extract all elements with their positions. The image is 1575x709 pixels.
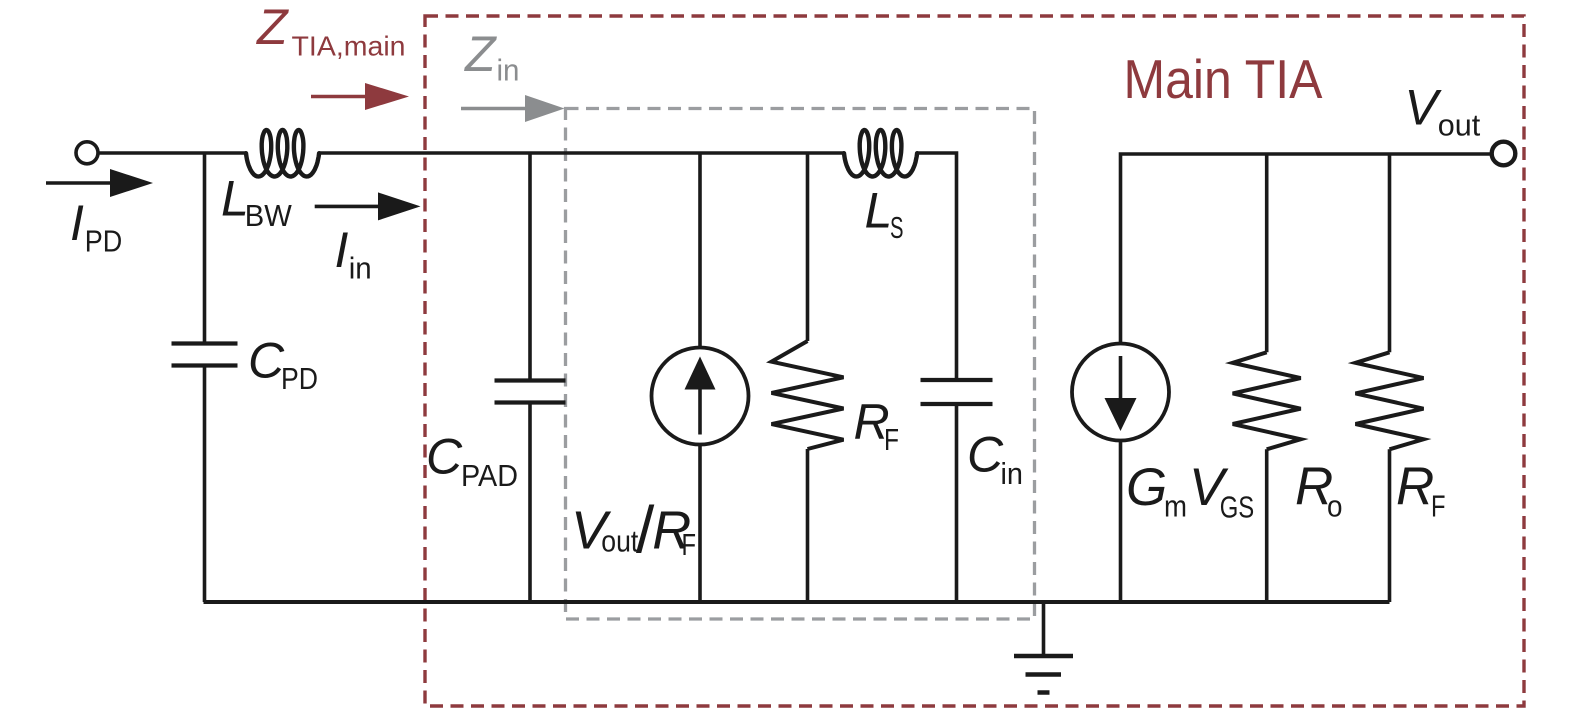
svg-text:BW: BW xyxy=(245,198,293,233)
arrow Z_in xyxy=(461,107,530,111)
svg-text:out: out xyxy=(1438,108,1481,143)
wire L_S to C_in corner xyxy=(918,153,957,380)
svg-text:TIA,main: TIA,main xyxy=(292,31,406,62)
svg-text:in: in xyxy=(1001,456,1024,491)
svg-text:o: o xyxy=(1327,489,1343,524)
bottom rail wire xyxy=(204,600,1390,604)
inductor L_S xyxy=(844,130,917,177)
wire L_BW to L_S xyxy=(320,151,844,155)
node C_PD branch wire xyxy=(203,153,207,602)
svg-text:C: C xyxy=(248,333,285,389)
svg-text:L: L xyxy=(865,183,893,239)
svg-text:in: in xyxy=(349,251,372,286)
capacitor C_PD xyxy=(172,344,238,366)
svg-text:G: G xyxy=(1126,458,1167,517)
resistor RF (output) xyxy=(1356,352,1424,449)
svg-text:Z: Z xyxy=(256,0,289,55)
svg-text:Main TIA: Main TIA xyxy=(1124,48,1323,110)
svg-text:V: V xyxy=(1405,80,1443,136)
svg-text:in: in xyxy=(497,53,520,88)
capacitor C_in xyxy=(921,380,993,404)
wire resistor RF (inner) branch xyxy=(806,153,810,602)
Main TIA dashed boundary box xyxy=(425,16,1524,706)
wire C_in lower branch xyxy=(955,404,959,602)
svg-text:F: F xyxy=(1431,489,1446,524)
svg-text:C: C xyxy=(967,427,1004,483)
resistor Ro xyxy=(1233,352,1301,449)
wire GmVGS lower xyxy=(1119,441,1123,603)
input terminal xyxy=(76,142,98,164)
wire C_PAD branch xyxy=(528,153,532,602)
capacitor C_PAD xyxy=(495,381,566,403)
svg-text:PAD: PAD xyxy=(461,458,518,493)
resistor RF (inner) xyxy=(772,341,844,449)
current source GmVGS circle xyxy=(1072,344,1169,441)
svg-text:I: I xyxy=(335,222,349,278)
svg-text:PD: PD xyxy=(281,361,318,396)
svg-text:Z: Z xyxy=(464,26,497,82)
ground xyxy=(1042,602,1046,656)
svg-text:GS: GS xyxy=(1220,490,1255,525)
svg-text:C: C xyxy=(426,429,463,485)
svg-text:S: S xyxy=(890,210,904,245)
arrow I_PD xyxy=(46,181,116,185)
svg-text:R: R xyxy=(1396,457,1434,516)
inductor L_BW xyxy=(246,130,319,177)
svg-text:out: out xyxy=(601,523,638,558)
wire output-stage top rail xyxy=(1121,154,1492,344)
wire input to L_BW xyxy=(98,151,246,155)
arrow Z_TIA,main xyxy=(311,95,370,99)
svg-text:F: F xyxy=(682,527,697,562)
arrow I_in xyxy=(315,205,383,209)
current source Vout/RF circle xyxy=(652,348,749,445)
wire resistor RF (output) branch xyxy=(1388,154,1392,602)
svg-text:F: F xyxy=(884,422,899,457)
inner dashed box (feedback network) xyxy=(566,109,1035,620)
wire resistor Ro branch xyxy=(1265,154,1269,602)
svg-text:PD: PD xyxy=(85,224,123,259)
svg-text:I: I xyxy=(70,195,84,251)
output terminal xyxy=(1492,142,1516,166)
svg-text:m: m xyxy=(1164,489,1187,524)
wire dependent source branch xyxy=(698,153,702,602)
